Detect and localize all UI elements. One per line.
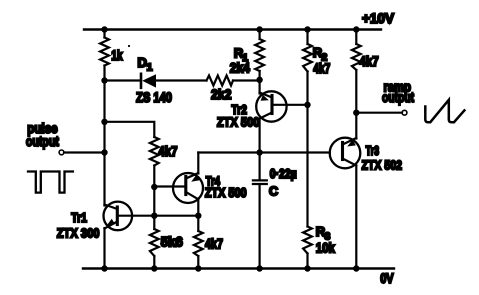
wire top rail to R1 — [259, 30, 261, 40]
wire 1k bottom to diode node — [103, 66, 105, 81]
svg-text:4k7: 4k7 — [159, 144, 178, 159]
transistor Q Tr3 ZTX502 — [330, 138, 361, 169]
label R3 designator — [316, 224, 331, 243]
label pulse output — [26, 121, 59, 149]
wire pulse output lead — [64, 151, 105, 153]
capacitor C 0.22u — [253, 180, 267, 184]
svg-text:5k6: 5k6 — [161, 235, 183, 250]
wire Tr4 collector down to 4k7 — [197, 199, 199, 231]
svg-text:4k7: 4k7 — [359, 54, 378, 69]
wire R3 to bottom rail — [306, 254, 308, 269]
wire 5k6 to bottom rail — [153, 256, 155, 269]
svg-text:0·22µ: 0·22µ — [270, 167, 297, 181]
wire Tr1 base line — [118, 215, 199, 217]
resistor R1 2k4 — [255, 39, 264, 71]
node junction: top rail / R1 — [256, 26, 262, 32]
node junction: ramp output / Tr3 emitter — [353, 110, 359, 116]
wire 4k7 bottom through junctions to 5k6 — [153, 166, 155, 230]
svg-text:output: output — [382, 90, 414, 105]
node junction: 1k / D1 line — [101, 77, 107, 83]
svg-text:+10V: +10V — [362, 10, 395, 26]
wire diode to 2k2 — [156, 79, 207, 81]
node junction: Tr2 base / R2 / R3 — [304, 102, 310, 108]
svg-text:ZTX 502: ZTX 502 — [362, 158, 403, 173]
wire R1 to diode-line node — [259, 71, 261, 81]
resistor 4k7 (ramp load) — [352, 44, 361, 70]
wire Tr4 emitter / C / Tr3 base line — [198, 151, 329, 153]
pulse waveform symbol — [28, 172, 73, 193]
node junctions on bottom rail — [101, 265, 359, 271]
svg-text:ZTX 500: ZTX 500 — [217, 114, 259, 129]
svg-text:D: D — [138, 55, 147, 70]
wire top rail to R2 — [306, 30, 308, 45]
wire ramp output lead — [356, 112, 402, 114]
wire left branch to 4k7 top — [105, 122, 155, 137]
svg-text:2k4: 2k4 — [230, 61, 250, 76]
resistor 2k2 — [207, 76, 234, 86]
wire Tr2 base lead — [272, 104, 308, 106]
transistor Q Tr4 ZTX500 — [173, 173, 203, 203]
resistor 4k7 (Tr4 collector load) — [194, 231, 203, 256]
node junction: top rail / 1k branch — [101, 26, 107, 32]
wire Tr4 base lead — [154, 185, 186, 187]
resistor R3 10k — [303, 227, 312, 254]
label D1 designator — [138, 55, 153, 74]
wire R2 to Tr2 base node and down to R3 — [306, 72, 308, 227]
resistor 4k7 (Tr4 base feed) — [150, 137, 159, 166]
transistor Q Tr2 ZTX500 — [256, 91, 286, 121]
svg-text:ZS 140: ZS 140 — [136, 90, 172, 105]
wire Tr3 collector to bottom rail — [355, 166, 357, 269]
node ramp output terminal — [402, 110, 407, 115]
svg-text:ZTX 300: ZTX 300 — [57, 226, 100, 241]
wire diode anode line — [105, 79, 141, 81]
resistor R 1k — [100, 38, 109, 66]
node junction: left branch / 4k7 feed — [101, 119, 107, 125]
svg-text:1: 1 — [147, 62, 153, 74]
svg-text:ZTX 500: ZTX 500 — [205, 186, 247, 200]
svg-text:4k7: 4k7 — [313, 61, 330, 76]
svg-text:Tr3: Tr3 — [366, 144, 380, 158]
wire C to bottom rail — [259, 185, 261, 268]
label R1 designator — [234, 45, 248, 64]
wire 4k7 to ramp node — [355, 70, 357, 139]
wire Tr2 collector down to C — [259, 119, 261, 180]
svg-text:output: output — [26, 134, 59, 149]
wire node to Tr2 emitter — [259, 81, 261, 94]
node junction: Tr1 base line / 5k6 — [151, 213, 157, 219]
node junction: capacitor C tap — [256, 149, 262, 155]
wire left branch down to Tr1 collector — [103, 81, 105, 206]
node junction: Tr1 base / Tr4 collector / 4k7 — [195, 213, 201, 219]
wire Tr1 emitter to bottom rail — [103, 228, 105, 269]
label ramp output — [382, 79, 414, 105]
svg-text:2k2: 2k2 — [211, 87, 232, 102]
wire 4k7 to bottom rail — [197, 256, 199, 269]
wire 0V bottom supply rail — [83, 267, 394, 269]
diode D1 ZS140 (cathode bar + triangle) — [141, 74, 156, 88]
wire 2k2 to R1 bottom node — [233, 79, 260, 81]
node junction: left branch / pulse output — [101, 149, 107, 155]
transistor Q Tr1 ZTX300 — [104, 202, 133, 231]
svg-text:C: C — [269, 185, 278, 199]
wire +10V top supply rail — [84, 28, 381, 30]
wire top rail to right 4k7 — [355, 30, 357, 45]
node junction: R1 / 2k2 / Tr2 emitter — [256, 77, 262, 83]
svg-text:1k: 1k — [111, 48, 123, 63]
resistor R2 4k7 — [303, 44, 312, 72]
node pulse output terminal — [59, 150, 64, 155]
node junction: top rail / R2 — [304, 26, 310, 32]
label R2 designator — [313, 45, 328, 64]
node junction: top rail / right 4k7 — [353, 26, 359, 32]
svg-text:Tr1: Tr1 — [71, 211, 87, 225]
node junction: Tr4 base tap — [151, 184, 157, 190]
wire Tr4 emitter up to ramp comparator line — [197, 153, 199, 174]
svg-text:4k7: 4k7 — [205, 237, 223, 252]
svg-text:10k: 10k — [316, 241, 335, 256]
svg-text:0V: 0V — [380, 271, 393, 286]
wire left branch: top rail to 1k — [103, 30, 105, 38]
resistor 5k6 — [150, 229, 159, 256]
ramp waveform symbol — [425, 100, 464, 122]
